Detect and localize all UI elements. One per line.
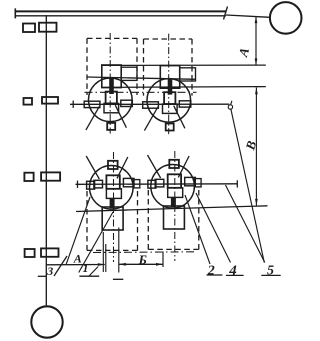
svg-text:3: 3	[46, 264, 53, 278]
dimension B(spacing) right arrow	[156, 263, 163, 266]
machine T2 agitator hub	[164, 92, 175, 104]
machine T1 right paddle	[121, 100, 133, 106]
machine B2 drum circle	[151, 165, 195, 209]
machine B1 drum circle	[90, 166, 134, 210]
machine B2 belt line right	[178, 156, 189, 177]
machine T1 dashed footprint top edge	[87, 37, 137, 39]
leader line 1 to label 5	[231, 109, 264, 263]
dimension A line	[255, 16, 257, 65]
machine T2 dashed footprint top edge	[144, 38, 193, 40]
machine B1 dashed footprint bottom edge	[87, 249, 138, 251]
machine T2 vertical axis line	[168, 34, 170, 135]
label 1 shelf	[79, 275, 99, 277]
machine B1 left inner paddle	[94, 180, 103, 188]
machine T1 gear box	[102, 65, 121, 88]
dimension B(spacing) line	[119, 263, 163, 265]
wall rail right end tick	[224, 7, 228, 20]
machine B1 vertical axis line	[113, 152, 115, 262]
top centre line hook tick	[231, 101, 232, 105]
dimension B line	[255, 88, 257, 206]
dimension B(spacing) right extension	[162, 252, 164, 268]
pulley circle top right	[270, 2, 302, 34]
leader line 2 to label 5	[226, 185, 265, 263]
wall rail top line	[15, 10, 227, 12]
top centre line left tick	[72, 101, 74, 108]
dimension B arrow down	[255, 199, 258, 206]
svg-text:Б: Б	[138, 252, 147, 267]
label 1 slash	[89, 267, 98, 277]
machine B2 left inner paddle	[155, 179, 164, 187]
machine T2 drum circle	[147, 79, 191, 123]
machine B1 agitator hub	[106, 175, 119, 189]
machine T1 left paddle	[84, 101, 100, 107]
mid line through top machine gear boxes	[87, 77, 196, 79]
bottom centre line right tick	[236, 180, 238, 187]
machine B1 gear box	[102, 207, 123, 230]
wall rail bottom line	[15, 15, 226, 17]
machine T2 belt line left	[144, 107, 158, 131]
dash-dot line below machines	[93, 251, 196, 254]
dimension B(spacing) left arrow	[119, 263, 126, 266]
bottom centre line left tick	[77, 181, 79, 188]
label 3 shelf	[38, 275, 47, 277]
machine T2 dashed footprint right edge	[191, 39, 193, 96]
label 2 shelf	[207, 274, 223, 276]
machine T2 right paddle	[179, 101, 191, 107]
machine T2 lower hub block	[163, 104, 178, 113]
bracket pair 1 right block	[39, 23, 57, 32]
extension line L1 (machine top)	[102, 64, 266, 66]
horizontal axis dash-dot through top machines	[85, 91, 197, 93]
label 5 shelf	[261, 274, 280, 276]
machine T2 gear box	[160, 66, 179, 89]
wire to pulley circle	[226, 15, 270, 17]
machine T1 dashed footprint left edge	[86, 38, 88, 95]
dimension A arrow up	[255, 17, 258, 24]
wall-to-axis dimension line	[46, 264, 105, 266]
stray shelf mark below dimension	[113, 278, 123, 280]
machine B1 dashed footprint left edge	[86, 191, 88, 250]
machine T1 vertical axis line	[109, 33, 111, 134]
machine B1 drive shaft	[110, 198, 115, 208]
label 4 shelf	[226, 274, 244, 276]
extension line pair right	[105, 244, 107, 272]
label 3 slash	[54, 256, 67, 276]
machine T1 drive shaft	[109, 78, 114, 94]
machine T1 drum circle	[89, 78, 133, 122]
machine T1 belt line left	[86, 106, 100, 130]
machine T1 motor block	[121, 67, 137, 80]
machine B2 agitator hub	[168, 174, 181, 188]
machine T1 foot block	[107, 123, 115, 130]
machine T1 lower hub block	[104, 103, 119, 112]
machine B1 belt line right	[117, 157, 128, 178]
extension line L2 (machine bottom)	[102, 86, 266, 89]
top row centre line	[70, 103, 229, 105]
machine T2 motor block	[180, 68, 196, 81]
machine T1 dashed footprint right edge	[136, 38, 138, 95]
machine B1 foot block	[108, 161, 118, 169]
leader line to label A	[66, 197, 90, 265]
machine T1 belt line right	[115, 105, 126, 128]
dimension B arrow up	[255, 88, 258, 95]
machine B2 right paddle	[185, 177, 196, 185]
machine T2 dashed footprint left edge	[143, 39, 145, 96]
bracket pair 4 right block	[41, 248, 59, 256]
machine B2 lower hub block	[168, 188, 183, 198]
bracket pair 1 left block	[23, 24, 35, 33]
leader line to label 4	[196, 193, 231, 263]
svg-text:1: 1	[83, 261, 89, 275]
svg-text:4: 4	[228, 263, 237, 279]
wall rail left end tick	[14, 8, 16, 18]
extension line pair left	[102, 232, 104, 272]
dimension B(spacing) left extension	[118, 228, 120, 273]
bottom row centre line	[76, 183, 238, 186]
machine B2 vertical axis line	[174, 151, 176, 261]
machine T2 belt line right	[174, 106, 185, 129]
bracket pair 4 left block	[25, 249, 35, 257]
machine B1 lower hub block	[106, 189, 121, 199]
bracket pair 3 left block	[24, 173, 33, 181]
bottom circle (reel)	[31, 306, 62, 337]
tangent line L3	[76, 206, 268, 212]
top centre line end hook	[228, 105, 232, 109]
machine T1 agitator hub	[106, 92, 117, 104]
machine B1 right edge block	[133, 180, 140, 188]
leader line to label 1	[79, 212, 113, 273]
machine B1 left outer paddle	[87, 181, 95, 189]
bracket pair 2 right block	[42, 97, 58, 104]
machine B2 dashed footprint bottom edge	[148, 248, 199, 250]
machine T2 drive shaft	[168, 79, 173, 95]
machine B2 left outer paddle	[148, 180, 156, 188]
svg-text:5: 5	[267, 264, 274, 279]
machine B2 belt line left	[148, 155, 161, 178]
machine B2 dashed footprint left edge	[147, 190, 149, 249]
machine T2 left paddle	[143, 102, 159, 108]
bracket pair 2 left block	[24, 98, 33, 105]
svg-text:А: А	[73, 252, 82, 266]
dimension A arrow down	[255, 59, 258, 66]
machine B1 dashed footprint right edge	[137, 191, 139, 250]
bracket pair 3 right block	[41, 172, 60, 180]
machine B2 drive shaft	[171, 197, 176, 207]
machine B2 dashed footprint right edge	[198, 190, 200, 249]
machine B2 right edge block	[195, 179, 202, 187]
machine T2 foot block	[166, 124, 174, 131]
machine B2 foot block	[169, 160, 179, 168]
machine B1 belt line left	[86, 156, 99, 179]
machine B1 right paddle	[123, 178, 134, 186]
machine B2 gear box	[164, 206, 185, 229]
left vertical supply line	[45, 15, 47, 306]
svg-text:2: 2	[207, 264, 215, 279]
wall-to-axis arrow	[98, 263, 105, 266]
leader line to label 2	[185, 195, 210, 264]
